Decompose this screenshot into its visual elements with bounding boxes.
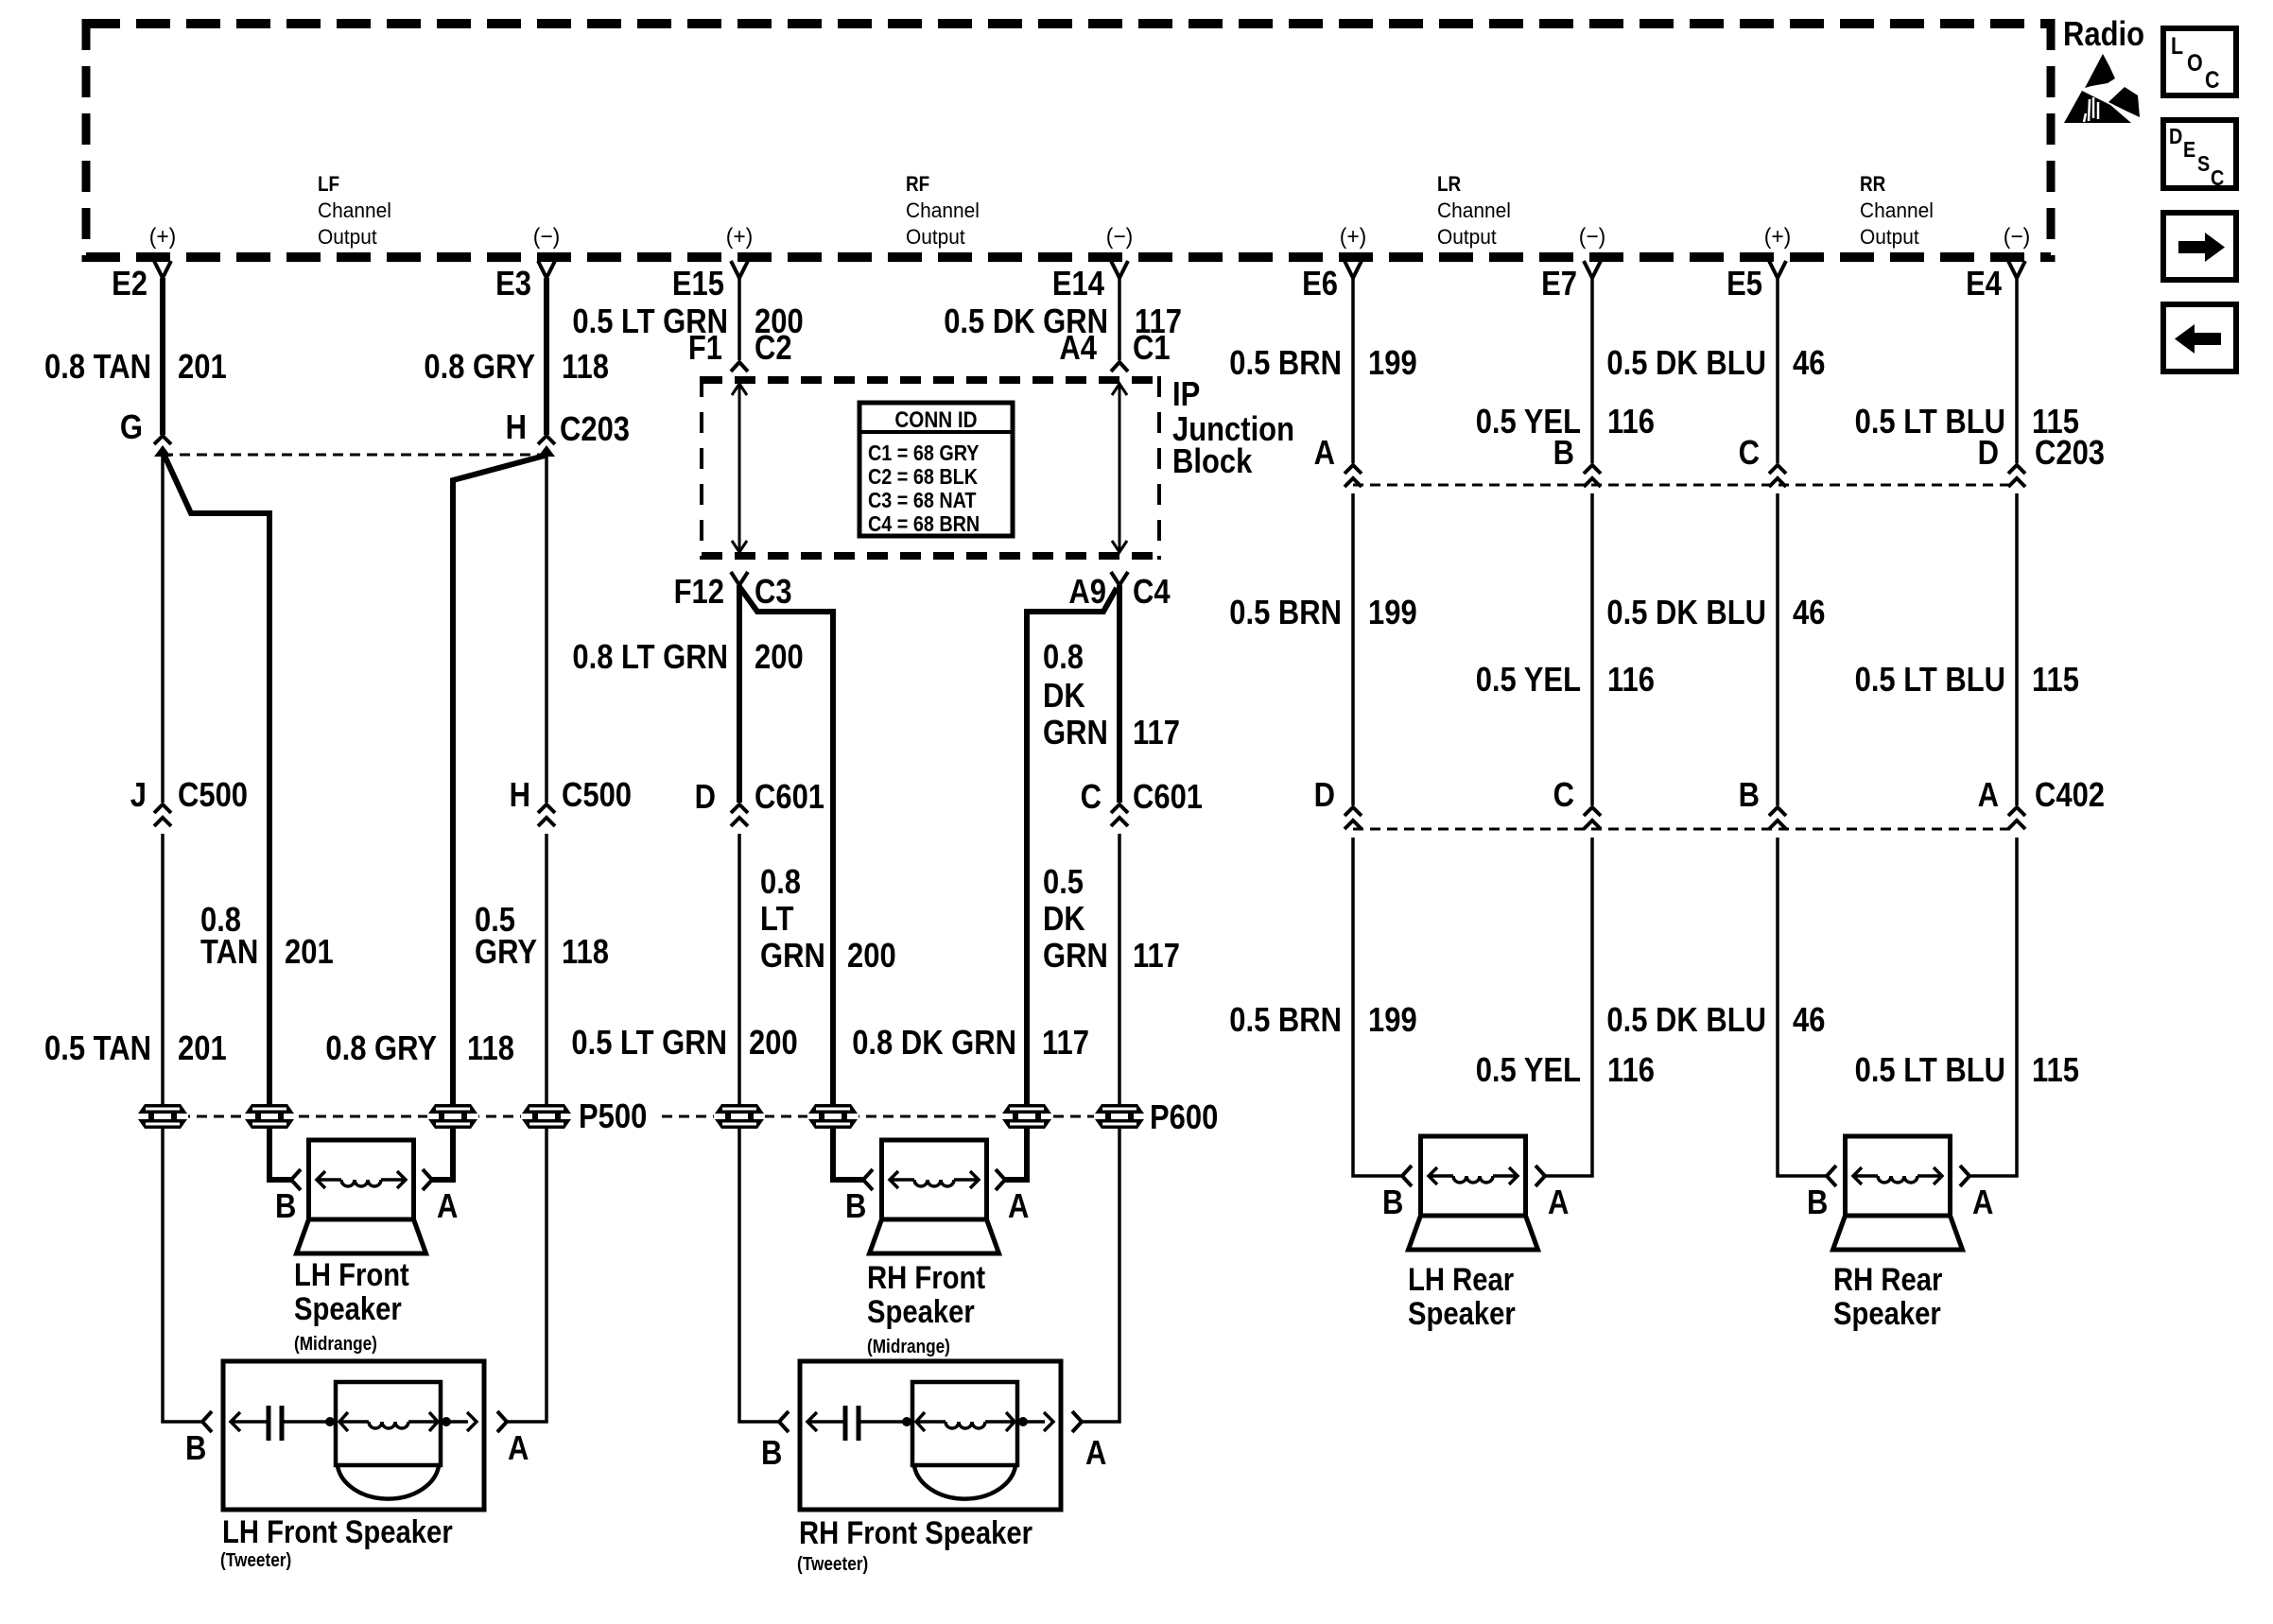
svg-text:118: 118 — [562, 932, 609, 971]
svg-text:Channel: Channel — [1860, 199, 1934, 222]
wire 0.8 TAN 201 branch G to LH front midrange B — [165, 456, 291, 1180]
connector C500 terminal J chevrons — [154, 804, 171, 813]
label 0.8 DK GRN 117 bottom — [852, 1023, 1089, 1062]
LH front midrange speaker terminal B chevron — [291, 1169, 301, 1190]
connector P600 grommet 1 — [714, 1104, 765, 1129]
svg-text:RH Rear: RH Rear — [1833, 1262, 1942, 1298]
svg-text:0.8 DK GRN: 0.8 DK GRN — [852, 1023, 1016, 1062]
RH front midrange speaker symbol — [870, 1140, 999, 1253]
svg-text:115: 115 — [2032, 1050, 2079, 1089]
svg-text:A: A — [1548, 1183, 1569, 1221]
svg-text:TAN: TAN — [200, 932, 258, 971]
svg-text:Output: Output — [318, 225, 377, 249]
wire E6 0.5 BRN 199 radio to C203 — [1351, 278, 1355, 463]
junction block entry chevron A4 — [1111, 362, 1128, 371]
label 0.5 YEL 116 mid — [1476, 660, 1655, 699]
connector C402 terminal D chevrons — [1345, 807, 1362, 816]
svg-text:B: B — [275, 1186, 296, 1225]
label 0.5 BRN 199 mid — [1229, 593, 1416, 631]
LH front tweeter terminal A chevron — [497, 1411, 507, 1432]
connector C601 terminal C chevrons — [1111, 804, 1128, 813]
svg-text:115: 115 — [2032, 660, 2079, 699]
svg-text:0.5 YEL: 0.5 YEL — [1476, 660, 1581, 699]
svg-text:116: 116 — [1607, 402, 1655, 441]
RH front tweeter terminal B chevron — [779, 1411, 789, 1432]
svg-text:B: B — [845, 1186, 866, 1225]
svg-text:B: B — [761, 1433, 782, 1472]
svg-text:200: 200 — [749, 1023, 798, 1062]
icon arrow left box — [2163, 304, 2236, 371]
svg-text:J: J — [130, 775, 147, 814]
svg-text:(Tweeter): (Tweeter) — [797, 1554, 868, 1575]
label 0.8 GRY 118 — [424, 347, 609, 386]
radio terminal E15 connector chevron — [731, 261, 748, 278]
label 0.5 DK BLU 46 mid — [1606, 593, 1825, 631]
svg-text:46: 46 — [1793, 593, 1825, 631]
connector C203 terminal G chevron — [154, 436, 171, 444]
svg-text:C: C — [1739, 433, 1760, 472]
svg-text:0.5 LT GRN: 0.5 LT GRN — [571, 1023, 727, 1062]
svg-text:C: C — [1553, 775, 1574, 814]
wire 0.5 YEL 116 C402 to LH rear speaker A — [1545, 838, 1592, 1176]
RH rear speaker symbol — [1833, 1136, 1963, 1250]
connector P500 grommet 3 — [427, 1104, 478, 1129]
LH rear speaker terminal A chevron — [1536, 1166, 1545, 1186]
svg-text:B: B — [185, 1428, 206, 1467]
svg-text:0.5 TAN: 0.5 TAN — [44, 1028, 151, 1067]
wire E7 0.5 YEL 116 radio to C203 — [1590, 278, 1594, 463]
svg-text:Channel: Channel — [318, 199, 391, 222]
svg-text:C3 = 68 NAT: C3 = 68 NAT — [868, 488, 977, 512]
label C C601 — [1081, 777, 1203, 816]
label 0.5 YEL 116 bottom — [1476, 1050, 1655, 1089]
connector P600 dashed line — [662, 1115, 1135, 1118]
svg-text:C1 = 68 GRY: C1 = 68 GRY — [868, 441, 980, 465]
svg-text:(−): (−) — [533, 224, 561, 250]
label 0.5 LT GRN 200 bottom — [571, 1023, 797, 1062]
svg-text:D: D — [2169, 124, 2182, 148]
wire 0.5 LT GRN 200 C601 to P600 and RH tweeter B — [739, 834, 779, 1422]
radio terminal E4 connector chevron — [2008, 261, 2025, 278]
svg-text:Channel: Channel — [1437, 199, 1511, 222]
svg-text:118: 118 — [562, 347, 609, 386]
svg-text:116: 116 — [1607, 660, 1655, 699]
connector C203 terminal H arrowhead — [538, 445, 555, 457]
radio terminal E3 connector chevron — [538, 261, 555, 278]
wire 0.5 BRN 199 C402 to LH rear speaker B — [1353, 838, 1402, 1176]
svg-text:S: S — [2197, 151, 2210, 176]
svg-text:O: O — [2187, 50, 2203, 77]
wire E4 0.5 LT BLU 115 radio to C203 — [2015, 278, 2019, 463]
wire 0.5 DK GRN 117 C601 to P600 and RH tweeter A — [1082, 834, 1119, 1422]
wire 0.8 DK GRN 117 branch A9 to RH front midrange A — [1005, 588, 1117, 1180]
svg-text:0.5 DK BLU: 0.5 DK BLU — [1606, 343, 1766, 382]
label 0.5 DK BLU 46 bottom — [1606, 1000, 1825, 1039]
svg-text:A: A — [1314, 433, 1335, 472]
svg-text:C402: C402 — [2035, 775, 2105, 814]
svg-text:116: 116 — [1607, 1050, 1655, 1089]
svg-text:C3: C3 — [755, 572, 792, 611]
svg-text:C: C — [2205, 67, 2220, 94]
radio terminal E5 connector chevron — [1769, 261, 1786, 278]
connector C203 terminal G arrowhead — [154, 445, 171, 457]
svg-text:E3: E3 — [495, 264, 531, 302]
svg-text:0.8: 0.8 — [1043, 637, 1084, 676]
label 0.8 GRY 118 bottom — [325, 1028, 514, 1067]
svg-text:E4: E4 — [1966, 264, 2002, 302]
wire 0.5 TAN 201 C500 to P500 and LH tweeter B — [163, 834, 202, 1422]
svg-text:(−): (−) — [1106, 224, 1134, 250]
svg-text:C203: C203 — [560, 409, 630, 448]
label 0.8 TAN 201 branch — [200, 900, 334, 971]
label 0.8 TAN 201 — [44, 347, 227, 386]
connector C203 dashed line right — [1353, 484, 2017, 487]
label LR Channel Output — [1437, 172, 1511, 249]
svg-text:0.8 LT GRN: 0.8 LT GRN — [572, 637, 728, 676]
junction block internal arrow left — [732, 384, 747, 552]
connector C402 terminal A chevrons — [2008, 807, 2025, 816]
svg-text:Output: Output — [1437, 225, 1497, 249]
junction block internal arrow right — [1112, 384, 1127, 552]
svg-text:P500: P500 — [579, 1097, 647, 1135]
label LH Rear Speaker — [1408, 1262, 1516, 1332]
svg-text:D: D — [1978, 433, 1999, 472]
svg-text:(+): (+) — [149, 224, 177, 250]
wire 0.5 DK BLU 46 C402 to RH rear speaker B — [1778, 838, 1827, 1176]
svg-text:A: A — [508, 1428, 529, 1467]
svg-text:0.5 LT BLU: 0.5 LT BLU — [1855, 660, 2005, 699]
wire E15 0.5 LT GRN 200 radio to junction block — [737, 278, 741, 360]
svg-text:C601: C601 — [755, 777, 824, 816]
label F12 C3 — [674, 572, 792, 611]
svg-text:GRN: GRN — [760, 936, 825, 975]
svg-text:(−): (−) — [2004, 224, 2031, 250]
RH rear speaker terminal B chevron — [1827, 1166, 1836, 1186]
label 0.5 BRN 199 — [1229, 343, 1416, 382]
RH front tweeter terminal A chevron — [1072, 1411, 1082, 1432]
svg-text:E15: E15 — [672, 264, 724, 302]
connector C402 dashed line — [1353, 828, 2017, 831]
svg-text:B: B — [1807, 1183, 1828, 1221]
wire 0.8 GRY 118 branch H to LH front midrange A — [432, 456, 545, 1180]
svg-text:A9: A9 — [1068, 572, 1106, 611]
svg-text:(Midrange): (Midrange) — [294, 1334, 377, 1355]
svg-text:Output: Output — [1860, 225, 1919, 249]
svg-text:0.5: 0.5 — [1043, 862, 1084, 901]
svg-text:RR: RR — [1860, 172, 1885, 196]
connector P600 grommet 2 — [807, 1104, 859, 1129]
connector P500 grommet 4 — [521, 1104, 572, 1129]
svg-text:E14: E14 — [1052, 264, 1104, 302]
svg-text:46: 46 — [1793, 343, 1825, 382]
LH front tweeter terminal B chevron — [202, 1411, 212, 1432]
svg-text:0.8 GRY: 0.8 GRY — [325, 1028, 437, 1067]
connector C500 terminal H chevrons — [538, 804, 555, 813]
svg-text:(−): (−) — [1579, 224, 1606, 250]
radio terminal E6 connector chevron — [1345, 261, 1362, 278]
svg-text:C4: C4 — [1133, 572, 1171, 611]
svg-text:C2 = 68 BLK: C2 = 68 BLK — [868, 464, 978, 489]
svg-text:0.5 LT BLU: 0.5 LT BLU — [1855, 1050, 2005, 1089]
svg-text:E7: E7 — [1541, 264, 1577, 302]
label D C601 — [695, 777, 824, 816]
wire 0.5 TAN 201 C203 to C500 — [161, 455, 165, 803]
icon arrow right box — [2163, 213, 2236, 280]
wire 0.5 GRY 118 C203 to C500 — [545, 455, 548, 803]
svg-text:0.5 YEL: 0.5 YEL — [1476, 1050, 1581, 1089]
label 0.8 DK GRN 117 mid stacked — [1043, 637, 1180, 752]
wire 0.5 GRY 118 C500 to P500 and LH tweeter A — [507, 834, 547, 1422]
label RR Channel Output — [1860, 172, 1934, 249]
svg-text:0.5 DK BLU: 0.5 DK BLU — [1606, 593, 1766, 631]
svg-text:A: A — [1008, 1186, 1029, 1225]
svg-text:199: 199 — [1368, 343, 1417, 382]
label LH Front Speaker Tweeter — [220, 1514, 453, 1571]
svg-text:B: B — [1739, 775, 1760, 814]
svg-text:LT: LT — [760, 899, 794, 938]
label RH Front Speaker Tweeter — [797, 1515, 1032, 1575]
svg-text:199: 199 — [1368, 1000, 1417, 1039]
connector C203 dashed line left — [163, 454, 547, 457]
wire 0.5 BRN 199 C203 to C402 — [1351, 493, 1355, 805]
svg-text:199: 199 — [1368, 593, 1417, 631]
label 0.5 DK BLU 46 — [1606, 343, 1825, 382]
svg-text:C601: C601 — [1133, 777, 1203, 816]
connector C203 terminal H chevron — [538, 436, 555, 444]
svg-text:200: 200 — [755, 637, 804, 676]
wire E3 0.8 GRY 118 radio to C203 — [544, 278, 549, 435]
svg-text:H: H — [506, 407, 527, 446]
svg-text:L: L — [2171, 33, 2183, 60]
connector C402 terminal C chevrons — [1584, 807, 1601, 816]
svg-text:C: C — [2211, 165, 2224, 190]
svg-text:201: 201 — [178, 1028, 227, 1067]
svg-text:(+): (+) — [1764, 224, 1792, 250]
label RH Rear Speaker — [1833, 1262, 1942, 1332]
wire 0.8 LT GRN 200 block to C601 — [737, 585, 742, 803]
label IP Junction Block — [1172, 374, 1294, 480]
label A4 C1 — [1059, 328, 1170, 367]
wire 0.5 LT BLU 115 C203 to C402 — [2015, 493, 2019, 805]
svg-text:A: A — [1085, 1433, 1106, 1472]
label LF Channel Output — [318, 172, 391, 249]
label 0.5 GRY 118 — [475, 900, 609, 971]
svg-text:Speaker: Speaker — [294, 1291, 402, 1327]
label 0.5 DK GRN 117 stacked — [1043, 862, 1180, 975]
svg-text:A4: A4 — [1059, 328, 1097, 367]
wire E2 0.8 TAN 201 radio to C203 — [160, 278, 165, 435]
svg-text:B: B — [1553, 433, 1574, 472]
connector C203 terminal C chevrons — [1769, 465, 1786, 474]
connector C203 terminal B chevrons — [1584, 465, 1601, 474]
RH front tweeter speaker symbol — [800, 1361, 1061, 1510]
svg-text:C1: C1 — [1133, 328, 1171, 367]
svg-text:117: 117 — [1042, 1023, 1089, 1062]
CONN ID table — [859, 403, 1013, 536]
svg-text:117: 117 — [1133, 713, 1180, 752]
svg-text:0.8 GRY: 0.8 GRY — [424, 347, 535, 386]
radio U1 dashed outline — [86, 19, 2051, 262]
svg-text:H: H — [510, 775, 530, 814]
svg-text:GRN: GRN — [1043, 936, 1108, 975]
LH rear speaker symbol — [1409, 1136, 1538, 1250]
label 0.8 LT GRN 200 mid — [572, 637, 803, 676]
svg-text:Block: Block — [1172, 441, 1253, 480]
svg-text:Speaker: Speaker — [867, 1294, 975, 1330]
icon DESC box — [2163, 120, 2236, 190]
svg-text:C2: C2 — [755, 328, 792, 367]
junction block exit chevron F12 — [731, 572, 748, 585]
wire 0.5 DK BLU 46 C203 to C402 — [1776, 493, 1779, 805]
label F1 C2 — [688, 328, 792, 367]
svg-text:(Tweeter): (Tweeter) — [220, 1550, 291, 1571]
svg-text:Speaker: Speaker — [1408, 1296, 1516, 1332]
svg-text:IP: IP — [1172, 374, 1200, 413]
connector C402 terminal B chevrons — [1769, 807, 1786, 816]
label 0.5 YEL 116 — [1476, 402, 1655, 441]
RH rear speaker terminal A chevron — [1960, 1166, 1969, 1186]
label RF Channel Output — [906, 172, 980, 249]
svg-text:Channel: Channel — [906, 199, 980, 222]
label 0.5 LT GRN 200 — [572, 302, 803, 340]
svg-text:A: A — [437, 1186, 458, 1225]
label 0.8 LT GRN 200 stacked — [760, 862, 896, 975]
svg-text:117: 117 — [1133, 936, 1180, 975]
svg-text:Radio: Radio — [2063, 14, 2144, 53]
svg-text:F1: F1 — [688, 328, 722, 367]
RH front midrange speaker terminal A chevron — [996, 1169, 1005, 1190]
connector P500 grommet 1 — [137, 1104, 188, 1129]
wire 0.5 YEL 116 C203 to C402 — [1590, 493, 1594, 805]
svg-text:D: D — [695, 777, 716, 816]
svg-text:200: 200 — [847, 936, 896, 975]
label 0.5 LT BLU 115 mid — [1855, 660, 2079, 699]
svg-text:LH Rear: LH Rear — [1408, 1262, 1514, 1298]
junction block entry chevron F1 — [731, 362, 748, 371]
junction block exit chevron A9 — [1111, 572, 1128, 585]
svg-text:A: A — [1972, 1183, 1993, 1221]
LH rear speaker terminal B chevron — [1402, 1166, 1412, 1186]
ESD sensitivity symbol — [2064, 54, 2140, 123]
svg-text:RH Front: RH Front — [867, 1260, 985, 1296]
svg-text:CONN ID: CONN ID — [894, 407, 977, 433]
svg-text:D: D — [1314, 775, 1335, 814]
svg-text:201: 201 — [178, 347, 227, 386]
svg-text:F12: F12 — [674, 572, 724, 611]
svg-text:E6: E6 — [1302, 264, 1338, 302]
connector P600 grommet 3 — [1001, 1104, 1052, 1129]
wire 0.8 DK GRN 117 block to C601 — [1117, 585, 1122, 803]
svg-text:DK: DK — [1043, 676, 1085, 715]
label 0.5 BRN 199 bottom — [1229, 1000, 1416, 1039]
wire E14 0.5 DK GRN 117 radio to junction block — [1118, 278, 1121, 360]
svg-text:0.8 TAN: 0.8 TAN — [44, 347, 151, 386]
label LH Front Speaker Midrange — [294, 1257, 409, 1355]
svg-text:0.5 BRN: 0.5 BRN — [1229, 593, 1342, 631]
svg-text:C500: C500 — [562, 775, 632, 814]
LH front midrange speaker symbol — [297, 1140, 426, 1253]
svg-text:C203: C203 — [2035, 433, 2105, 472]
svg-text:A: A — [1978, 775, 1999, 814]
connector C203 terminal D chevrons — [2008, 465, 2025, 474]
connector P500 dashed line — [163, 1115, 567, 1118]
LH front tweeter speaker symbol — [223, 1361, 484, 1510]
svg-text:LH Front: LH Front — [294, 1257, 409, 1293]
svg-text:DK: DK — [1043, 899, 1085, 938]
svg-text:B: B — [1382, 1183, 1403, 1221]
label 0.5 DK GRN 117 — [944, 302, 1182, 340]
icon LOC box — [2163, 28, 2236, 95]
svg-text:46: 46 — [1793, 1000, 1825, 1039]
svg-text:LR: LR — [1437, 172, 1461, 196]
svg-text:Speaker: Speaker — [1833, 1296, 1941, 1332]
svg-text:201: 201 — [285, 932, 334, 971]
IP junction block dashed outline — [702, 376, 1159, 560]
wire E5 0.5 DK BLU 46 radio to C203 — [1776, 278, 1779, 463]
svg-text:Output: Output — [906, 225, 965, 249]
svg-text:LH Front Speaker: LH Front Speaker — [222, 1514, 453, 1550]
svg-text:E: E — [2183, 137, 2195, 162]
connector C203 terminal A chevrons — [1345, 465, 1362, 474]
svg-text:C: C — [1081, 777, 1102, 816]
label 0.5 LT BLU 115 — [1855, 402, 2079, 441]
svg-text:118: 118 — [467, 1028, 514, 1067]
label 0.5 TAN 201 bottom — [44, 1028, 227, 1067]
label A9 C4 — [1068, 572, 1170, 611]
svg-text:0.8: 0.8 — [760, 862, 801, 901]
svg-text:RH Front Speaker: RH Front Speaker — [799, 1515, 1032, 1551]
radio terminal E2 connector chevron — [154, 261, 171, 278]
connector P500 grommet 2 — [244, 1104, 295, 1129]
svg-text:GRN: GRN — [1043, 713, 1108, 752]
svg-text:(+): (+) — [1340, 224, 1367, 250]
svg-text:0.5 BRN: 0.5 BRN — [1229, 343, 1342, 382]
wire 0.5 LT BLU 115 C402 to RH rear speaker A — [1969, 838, 2017, 1176]
svg-text:GRY: GRY — [475, 932, 537, 971]
connector P600 grommet 4 — [1094, 1104, 1145, 1129]
svg-text:(+): (+) — [726, 224, 754, 250]
LH front midrange speaker terminal A chevron — [423, 1169, 432, 1190]
wire 0.8 LT GRN 200 branch F12 to RH front midrange B — [740, 588, 863, 1180]
label 0.5 LT BLU 115 bottom — [1855, 1050, 2079, 1089]
svg-text:0.5 DK BLU: 0.5 DK BLU — [1606, 1000, 1766, 1039]
svg-text:P600: P600 — [1150, 1097, 1218, 1136]
radio terminal E14 connector chevron — [1111, 261, 1128, 278]
svg-text:G: G — [120, 407, 143, 446]
svg-text:E2: E2 — [112, 264, 147, 302]
svg-text:C4 = 68 BRN: C4 = 68 BRN — [868, 511, 980, 536]
svg-text:C500: C500 — [178, 775, 248, 814]
radio terminal E7 connector chevron — [1584, 261, 1601, 278]
RH front midrange speaker terminal B chevron — [863, 1169, 873, 1190]
svg-text:(Midrange): (Midrange) — [867, 1337, 950, 1357]
svg-text:RF: RF — [906, 172, 929, 196]
svg-text:E5: E5 — [1726, 264, 1762, 302]
svg-text:LF: LF — [318, 172, 339, 196]
label RH Front Speaker Midrange — [867, 1260, 985, 1357]
svg-text:0.5 BRN: 0.5 BRN — [1229, 1000, 1342, 1039]
connector C601 terminal D chevrons — [731, 804, 748, 813]
